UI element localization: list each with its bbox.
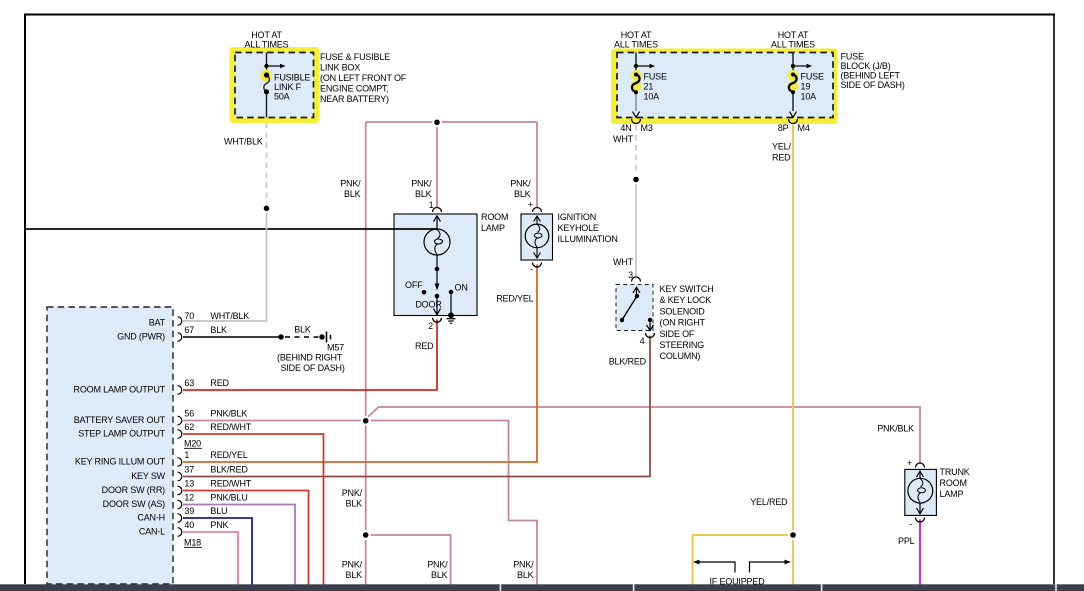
wire PNK/BLK top rail (366, 121, 537, 123)
module pin 13 DOOR SW (RR) (102, 479, 252, 496)
wire black segment inside room lamp box (394, 228, 438, 230)
room lamp switch (405, 267, 468, 316)
svg-text:WHT/BLK: WHT/BLK (224, 136, 263, 146)
svg-text:WHT: WHT (613, 134, 634, 144)
trunk lamp + label and arc (907, 458, 925, 468)
svg-text:KEY RING ILLUM OUT: KEY RING ILLUM OUT (75, 457, 166, 467)
module pin 70 BAT (149, 311, 250, 328)
wire PNK/BLK drop to keyhole illumination + (536, 122, 538, 207)
label 3 and key switch arc (628, 270, 640, 282)
wire YEL/RED main vertical (792, 125, 794, 585)
fuse and fusible link box dashed border (235, 53, 314, 118)
fusible link box yellow highlight (230, 47, 320, 123)
wire YEL/RED left branch (693, 535, 794, 585)
note key switch location (660, 284, 714, 361)
label IGNITION KEYHOLE ILLUMINATION (558, 212, 618, 244)
label HOT AT ALL TIMES middle (614, 30, 658, 50)
svg-text:HOT AT: HOT AT (778, 30, 809, 40)
svg-text:LAMP: LAMP (481, 223, 505, 233)
svg-text:ILLUMINATION: ILLUMINATION (558, 234, 618, 244)
wire WHT dashed from fuse 21 (635, 125, 637, 179)
svg-text:PNK/BLK: PNK/BLK (877, 424, 914, 434)
svg-text:PNK/: PNK/ (342, 560, 363, 570)
svg-text:BAT: BAT (149, 318, 166, 328)
module pin 12 DOOR SW (AS) (103, 493, 248, 510)
svg-text:SIDE OF: SIDE OF (660, 329, 695, 339)
frame right border (1053, 14, 1055, 585)
fusible link F 50A (260, 53, 310, 118)
svg-text:37: 37 (184, 465, 194, 475)
label 8P M4 (778, 123, 810, 133)
svg-text:KEY SW: KEY SW (131, 471, 165, 481)
svg-text:DOOR: DOOR (415, 300, 442, 310)
junction node PNK/BLK rail (432, 117, 442, 127)
module pin 67 GND (PWR) (117, 325, 227, 342)
svg-text:ALL TIMES: ALL TIMES (614, 40, 658, 50)
svg-text:BLK: BLK (431, 570, 448, 580)
module pin 56 BATTERY SAVER OUT (74, 409, 248, 426)
fuse block dashed border (617, 53, 833, 118)
svg-text:PNK/BLU: PNK/BLU (210, 493, 247, 503)
svg-text:19: 19 (801, 82, 811, 92)
svg-text:SIDE OF DASH): SIDE OF DASH) (841, 80, 905, 90)
svg-text:ALL TIMES: ALL TIMES (245, 40, 289, 50)
svg-text:STEERING: STEERING (660, 340, 705, 350)
junction node PNK/BLK lower (361, 530, 371, 540)
note fuse block location (841, 52, 905, 91)
connector M3 arc (632, 119, 641, 124)
svg-text:ROOM LAMP OUTPUT: ROOM LAMP OUTPUT (74, 385, 166, 395)
module pin 62 STEP LAMP OUTPUT (78, 422, 252, 439)
wire RED/YEL from keyhole illumination to pin 1 (183, 265, 537, 463)
svg-text:LAMP: LAMP (940, 489, 964, 499)
ground inside room lamp (447, 312, 456, 323)
svg-text:RED/YEL: RED/YEL (496, 294, 533, 304)
svg-text:KEYHOLE: KEYHOLE (558, 223, 599, 233)
svg-text:BLK/RED: BLK/RED (210, 465, 248, 475)
splice node WHT/BLK (262, 203, 272, 213)
svg-text:HOT AT: HOT AT (251, 30, 282, 40)
wire WHT/BLK dashed from fusible link (266, 123, 268, 209)
svg-text:LINK F: LINK F (274, 82, 302, 92)
keyhole illumination + label and arc (528, 200, 542, 213)
wire BLU pin 39 CAN-H (183, 518, 252, 585)
svg-text:PNK/BLK: PNK/BLK (210, 409, 247, 419)
svg-text:ROOM: ROOM (940, 478, 967, 488)
svg-text:HOT AT: HOT AT (621, 30, 652, 40)
svg-text:ON: ON (455, 283, 468, 293)
wire WHT/BLK to module pin 70 (183, 209, 267, 322)
svg-text:& KEY LOCK: & KEY LOCK (660, 295, 712, 305)
svg-text:62: 62 (184, 422, 194, 432)
wire PPL from trunk lamp (919, 520, 921, 585)
svg-text:M3: M3 (641, 123, 653, 133)
svg-text:BLK: BLK (344, 189, 361, 199)
svg-text:BLOCK (J/B): BLOCK (J/B) (841, 61, 891, 71)
svg-text:+: + (907, 458, 912, 468)
svg-text:56: 56 (184, 409, 194, 419)
svg-text:OFF: OFF (405, 280, 423, 290)
label PNK/BLK bottom right (513, 560, 534, 581)
svg-text:YEL/: YEL/ (772, 142, 791, 152)
frame left border (24, 14, 26, 585)
trunk room lamp box (905, 469, 937, 515)
svg-text:LINK BOX: LINK BOX (320, 63, 360, 73)
svg-text:BLK/RED: BLK/RED (609, 357, 647, 367)
svg-text:RED: RED (772, 153, 791, 163)
svg-text:-: - (909, 519, 912, 529)
wire PNK/BLK lower branch (366, 535, 451, 585)
svg-text:67: 67 (184, 325, 194, 335)
label ROOM LAMP (481, 212, 508, 233)
svg-text:SIDE OF DASH): SIDE OF DASH) (281, 363, 345, 373)
wire black room lamp feed from left edge (26, 228, 437, 230)
label IF EQUIPPED with arrows (693, 560, 791, 587)
module pin 39 CAN-H (137, 506, 227, 523)
svg-text:RED: RED (415, 341, 434, 351)
svg-text:(ON RIGHT: (ON RIGHT (660, 318, 706, 328)
svg-text:BLK: BLK (294, 325, 311, 335)
wire PNK/BLU pin 12 door sw AS (183, 505, 295, 585)
svg-text:CAN-L: CAN-L (139, 527, 165, 537)
svg-text:39: 39 (184, 506, 194, 516)
svg-text:PNK/: PNK/ (411, 178, 432, 188)
svg-text:SOLENOID: SOLENOID (660, 306, 706, 316)
svg-text:RED/WHT: RED/WHT (210, 479, 251, 489)
fuse 19 10A (788, 53, 824, 118)
svg-text:4: 4 (640, 336, 645, 346)
svg-text:13: 13 (184, 479, 194, 489)
svg-text:PNK/: PNK/ (510, 178, 531, 188)
connector M18 label (184, 538, 202, 548)
svg-text:BLK: BLK (346, 499, 363, 509)
svg-text:PPL: PPL (898, 536, 915, 546)
svg-text:WHT/BLK: WHT/BLK (210, 311, 249, 321)
module pin 1 KEY RING ILLUM OUT (75, 450, 248, 467)
label M57 location (277, 343, 345, 374)
svg-text:BATTERY SAVER OUT: BATTERY SAVER OUT (74, 415, 166, 425)
svg-text:M20: M20 (184, 439, 201, 449)
junction node YEL/RED (788, 530, 798, 540)
wire RED room lamp pin2 to pin 63 (183, 320, 437, 391)
frame top border (24, 14, 1055, 16)
svg-text:10A: 10A (644, 92, 660, 102)
svg-text:FUSE: FUSE (801, 72, 824, 82)
label TRUNK ROOM LAMP (940, 467, 970, 499)
svg-text:IGNITION: IGNITION (558, 212, 597, 222)
svg-text:STEP LAMP OUTPUT: STEP LAMP OUTPUT (78, 429, 165, 439)
svg-text:+: + (528, 200, 533, 210)
svg-text:(ON LEFT FRONT OF: (ON LEFT FRONT OF (320, 73, 407, 83)
key switch box (616, 285, 653, 331)
svg-text:PNK/: PNK/ (340, 178, 361, 188)
wire RED/WHT pin 62 step lamp output (183, 434, 324, 585)
keyhole illumination - label and arc (530, 263, 541, 275)
label PNK/BLK top left (340, 178, 361, 199)
wire BLK pin 67 to ground M57 (183, 325, 331, 343)
trunk lamp - label and arc (909, 518, 924, 530)
svg-text:BLK: BLK (346, 570, 363, 580)
svg-text:RED/WHT: RED/WHT (210, 422, 251, 432)
fuse 21 10A (631, 53, 667, 118)
svg-text:21: 21 (644, 82, 654, 92)
keyhole illumination bulb (525, 216, 549, 258)
room lamp bulb (424, 216, 450, 269)
svg-text:FUSIBLE: FUSIBLE (274, 73, 310, 83)
svg-text:RED/YEL: RED/YEL (210, 450, 247, 460)
svg-text:TRUNK: TRUNK (940, 467, 970, 477)
svg-text:ALL TIMES: ALL TIMES (771, 40, 815, 50)
svg-text:PNK: PNK (210, 520, 228, 530)
svg-text:4N: 4N (620, 123, 631, 133)
svg-text:DOOR SW (RR): DOOR SW (RR) (102, 485, 166, 495)
bottom dark bar (0, 584, 1084, 591)
label PNK/BLK bottom mid (427, 560, 448, 581)
svg-text:COLUMN): COLUMN) (660, 351, 701, 361)
wire WHT to key switch pin 3 (635, 180, 637, 278)
svg-text:M4: M4 (798, 123, 810, 133)
fuse block yellow highlight (611, 49, 838, 125)
key switch pin 4 (640, 318, 655, 346)
svg-text:M18: M18 (184, 538, 201, 548)
svg-text:-: - (530, 264, 533, 274)
svg-text:KEY SWITCH: KEY SWITCH (660, 284, 714, 294)
svg-text:WHT: WHT (613, 257, 634, 267)
label PNK/BLK top right (510, 178, 531, 199)
svg-text:50A: 50A (274, 92, 290, 102)
wire BLK/RED from key switch pin 4 to pin 37 (183, 336, 650, 477)
svg-text:M57: M57 (327, 343, 344, 353)
svg-text:ENGINE COMPT,: ENGINE COMPT, (320, 84, 389, 94)
label YEL/RED at M4 (772, 142, 791, 163)
svg-text:CAN-H: CAN-H (137, 513, 165, 523)
wire RED/WHT pin 13 door sw RR (183, 491, 309, 585)
svg-text:10A: 10A (801, 92, 817, 102)
svg-text:FUSE & FUSIBLE: FUSE & FUSIBLE (320, 52, 390, 62)
svg-text:BLK: BLK (210, 325, 227, 335)
module pin 40 CAN-L (139, 520, 229, 537)
wire PNK/BLK branch to trunk room lamp (366, 407, 920, 464)
trunk room lamp bulb (908, 471, 933, 514)
svg-text:GND (PWR): GND (PWR) (117, 332, 165, 342)
splice node WHT (631, 175, 641, 185)
svg-text:PNK/: PNK/ (342, 488, 363, 498)
wire PNK/BLK main vertical (365, 122, 367, 585)
label PNK/BLK bottom left (342, 560, 363, 581)
module pin 37 KEY SW (131, 465, 248, 482)
svg-text:63: 63 (184, 378, 194, 388)
label 4N M3 (620, 123, 652, 133)
svg-text:PNK/: PNK/ (427, 560, 448, 570)
svg-text:1: 1 (184, 450, 189, 460)
svg-text:(BEHIND RIGHT: (BEHIND RIGHT (277, 352, 343, 362)
svg-text:YEL/RED: YEL/RED (750, 497, 788, 507)
svg-text:DOOR SW (AS): DOOR SW (AS) (103, 499, 166, 509)
wire PNK/BLK drop to room lamp pin 1 (436, 122, 438, 207)
svg-text:FUSE: FUSE (644, 72, 667, 82)
room lamp pin 1 label and arc (429, 200, 442, 212)
svg-text:RED: RED (210, 378, 229, 388)
svg-text:(BEHIND LEFT: (BEHIND LEFT (841, 71, 901, 81)
label PNK/BLK top middle (411, 178, 432, 199)
svg-text:NEAR BATTERY): NEAR BATTERY) (320, 94, 389, 104)
svg-text:40: 40 (184, 520, 194, 530)
svg-text:BLU: BLU (210, 506, 227, 516)
svg-text:ROOM: ROOM (481, 212, 508, 222)
svg-text:70: 70 (184, 311, 194, 321)
note fusible link box location (320, 52, 407, 104)
room lamp pin 2 arrow and arc (428, 296, 441, 331)
connector M20 label (184, 439, 202, 449)
label PNK/BLK mid column (342, 488, 363, 509)
room lamp box (394, 214, 477, 316)
svg-text:FUSE: FUSE (841, 52, 864, 62)
svg-text:8P: 8P (778, 123, 789, 133)
wire PNK/BLK pin 56 horizontal (183, 421, 537, 585)
svg-text:12: 12 (184, 493, 194, 503)
key switch blade (620, 287, 640, 322)
module pin 63 ROOM LAMP OUTPUT (74, 378, 230, 395)
wire PNK pin 40 CAN-L (183, 532, 238, 585)
label HOT AT ALL TIMES right (771, 30, 815, 50)
svg-text:1: 1 (429, 200, 434, 210)
svg-text:PNK/: PNK/ (513, 560, 534, 570)
svg-text:2: 2 (428, 321, 433, 331)
label HOT AT ALL TIMES left (245, 30, 289, 50)
svg-text:BLK: BLK (517, 570, 534, 580)
ignition keyhole illumination box (521, 214, 553, 260)
connector M4 arc (789, 119, 798, 124)
junction node PNK/BLK at pin 56 (361, 416, 371, 426)
svg-text:BLK: BLK (415, 189, 432, 199)
svg-text:BLK: BLK (514, 189, 531, 199)
body control module box (47, 307, 173, 584)
